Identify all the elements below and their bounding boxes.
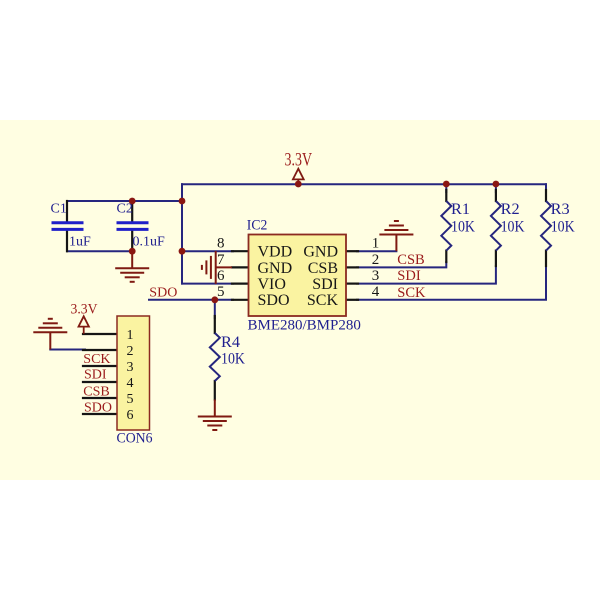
svg-text:10K: 10K [501, 219, 526, 236]
svg-text:3.3V: 3.3V [285, 149, 313, 170]
svg-text:4: 4 [127, 376, 134, 391]
svg-text:1: 1 [372, 236, 380, 252]
svg-text:SDO: SDO [258, 292, 290, 309]
svg-text:BME280/BMP280: BME280/BMP280 [248, 318, 361, 334]
svg-text:1uF: 1uF [69, 235, 91, 250]
svg-text:5: 5 [127, 392, 134, 407]
svg-text:10K: 10K [451, 219, 476, 236]
svg-text:SCK: SCK [83, 352, 110, 367]
svg-text:SDI: SDI [397, 268, 421, 284]
svg-text:3: 3 [372, 268, 380, 284]
svg-text:SDI: SDI [84, 367, 107, 382]
svg-text:3: 3 [127, 360, 134, 375]
svg-text:CSB: CSB [308, 260, 338, 277]
svg-text:C1: C1 [51, 202, 67, 217]
svg-text:SCK: SCK [307, 292, 339, 309]
svg-text:IC2: IC2 [247, 218, 267, 234]
svg-text:5: 5 [217, 284, 225, 300]
svg-text:SDO: SDO [84, 401, 112, 416]
svg-text:C2: C2 [117, 202, 133, 217]
svg-text:CON6: CON6 [117, 431, 153, 447]
svg-text:R4: R4 [221, 334, 240, 351]
svg-text:VDD: VDD [258, 244, 293, 261]
svg-text:CSB: CSB [397, 252, 424, 268]
svg-text:R2: R2 [501, 201, 520, 218]
svg-text:SDI: SDI [312, 276, 338, 293]
svg-text:R3: R3 [551, 201, 570, 218]
svg-text:VIO: VIO [258, 276, 286, 293]
svg-text:10K: 10K [551, 219, 576, 236]
svg-text:6: 6 [127, 408, 134, 423]
svg-text:8: 8 [217, 236, 225, 252]
svg-text:SDO: SDO [149, 285, 177, 300]
svg-text:GND: GND [258, 260, 293, 277]
svg-text:0.1uF: 0.1uF [133, 235, 166, 250]
svg-text:SCK: SCK [397, 285, 426, 301]
svg-text:3.3V: 3.3V [71, 302, 98, 318]
svg-text:R1: R1 [451, 201, 470, 218]
svg-text:1: 1 [127, 328, 134, 343]
svg-text:6: 6 [217, 268, 225, 284]
svg-text:CSB: CSB [83, 384, 109, 399]
svg-text:GND: GND [303, 244, 338, 261]
svg-text:2: 2 [372, 252, 380, 268]
svg-text:4: 4 [372, 284, 380, 300]
svg-text:7: 7 [217, 252, 225, 268]
svg-text:10K: 10K [221, 351, 246, 368]
svg-text:2: 2 [127, 344, 134, 359]
